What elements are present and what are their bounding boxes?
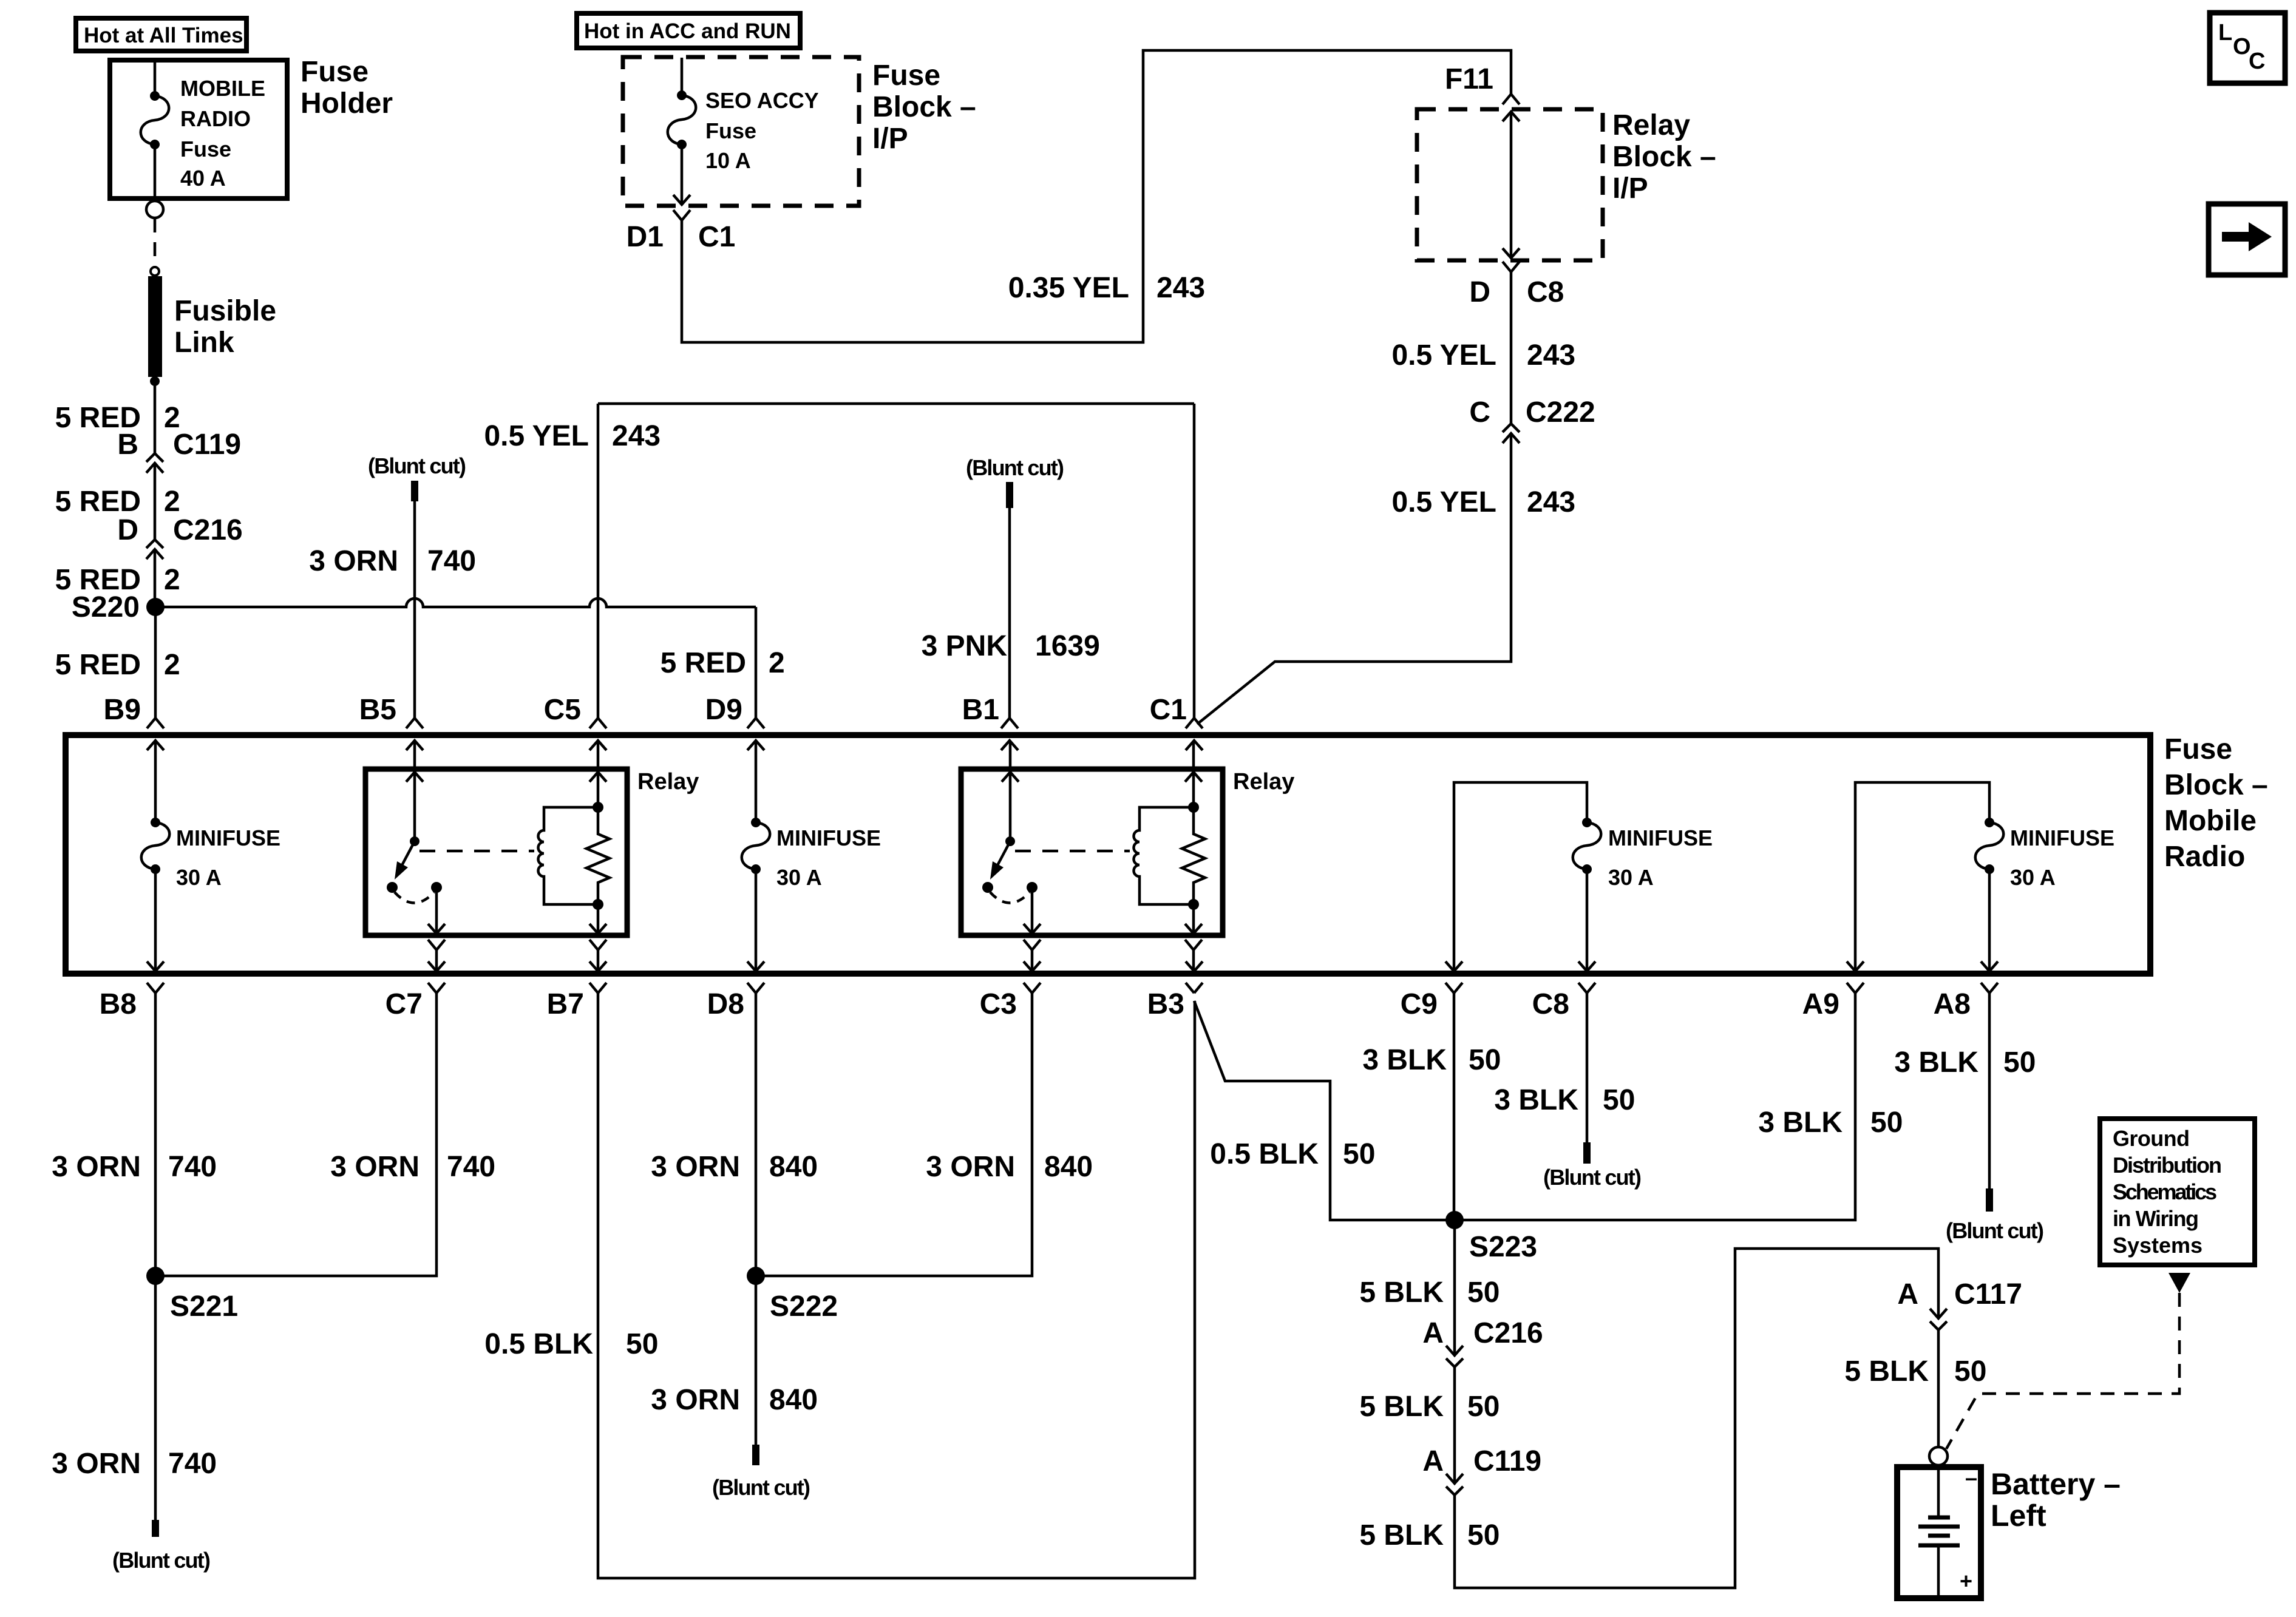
wire 5 RED 2 (C216 to S220) [154, 549, 157, 607]
wire relay 1 to block edge [597, 950, 600, 971]
wire 0.5 YEL 243 (C5/C1 feed) [598, 404, 1194, 718]
wire C9-C8 inside block (inverted U) [1454, 782, 1587, 971]
svg-text:B: B [117, 429, 138, 461]
svg-text:Link: Link [174, 327, 234, 359]
svg-text:50: 50 [1954, 1355, 1986, 1388]
wire 3 ORN 740 (below S221) [154, 1276, 157, 1520]
svg-text:3 BLK: 3 BLK [1362, 1044, 1447, 1076]
wire 5 BLK 50 (C119 to C117) [1455, 1249, 1938, 1588]
svg-text:50: 50 [1603, 1084, 1635, 1116]
svg-text:A: A [1422, 1317, 1444, 1349]
svg-text:A: A [1897, 1278, 1918, 1310]
svg-text:243: 243 [612, 420, 661, 452]
connector fork B7 at block bottom edge [589, 983, 606, 993]
wire relay 2 to block edge [1192, 950, 1195, 971]
svg-text:50: 50 [1467, 1391, 1500, 1423]
blunt cut end (C8 wire) [1583, 1142, 1591, 1164]
svg-text:C8: C8 [1527, 276, 1564, 308]
minifuse 30A (B9/B8) [151, 818, 160, 827]
relay 2 coil bottom junction dot [1188, 899, 1199, 910]
svg-text:RADIO: RADIO [180, 106, 251, 131]
svg-text:5 RED: 5 RED [55, 486, 141, 518]
relay 1 box [365, 769, 627, 935]
blunt cut end (S221 branch) [152, 1520, 159, 1537]
wire 3 BLK 50 (A8) [1988, 993, 1991, 1188]
fork below relay 1 bottom-right pin [589, 940, 606, 950]
svg-text:C3: C3 [980, 988, 1017, 1020]
battery cell plates [1918, 1517, 1960, 1545]
svg-text:50: 50 [1343, 1138, 1375, 1170]
wire 5 BLK 50 (C216 to C119) [1453, 1367, 1456, 1483]
svg-text:F11: F11 [1445, 63, 1493, 95]
svg-text:30 A: 30 A [176, 865, 222, 890]
relay 1 contact dot (NO) [431, 882, 442, 893]
connector C216 (in-line, ground side) [1446, 1346, 1463, 1367]
svg-text:5 RED: 5 RED [661, 647, 746, 679]
arrow relay 2 right pin [1185, 772, 1202, 782]
wire 3 BLK 50 (C8) [1586, 993, 1589, 1142]
svg-text:Block –: Block – [1612, 141, 1716, 173]
arrow relay 1 bottom-right pin [589, 924, 606, 934]
svg-text:0.5 BLK: 0.5 BLK [484, 1328, 593, 1360]
svg-text:L: L [2218, 20, 2232, 46]
arrow at fuse block I/P exit [673, 195, 690, 205]
svg-text:1639: 1639 [1035, 630, 1100, 662]
connector fork D/C8 below relay block [1503, 262, 1520, 272]
arrow B7 inside block bottom edge [589, 961, 606, 971]
svg-text:D1: D1 [627, 221, 664, 253]
svg-text:D9: D9 [705, 694, 742, 726]
svg-text:MINIFUSE: MINIFUSE [176, 825, 280, 850]
relay block I/P dashed box [1417, 109, 1603, 260]
connector C119 (in-line, ground side) [1446, 1474, 1463, 1495]
fork below relay 2 bottom-right pin [1185, 940, 1202, 950]
connector fork C8 at block bottom edge [1578, 983, 1595, 993]
svg-text:MINIFUSE: MINIFUSE [1608, 825, 1713, 850]
relay 1 switch arm [399, 841, 415, 871]
wire 0.5 BLK 50 (B7 loop to B3) [598, 993, 1195, 1578]
wire 5 RED 2 (C119 to C216) [154, 463, 157, 540]
svg-text:S221: S221 [170, 1290, 238, 1323]
relay 2 box [961, 769, 1223, 935]
wire 3 ORN 740 (B8 to S221) [154, 993, 157, 1276]
connector fork C5 at block top edge [589, 718, 606, 728]
svg-text:C9: C9 [1401, 988, 1438, 1020]
arrow C1 inside block top edge [1186, 741, 1203, 750]
svg-text:D8: D8 [707, 988, 744, 1020]
svg-text:3 BLK: 3 BLK [1494, 1084, 1578, 1116]
svg-text:2: 2 [164, 564, 180, 596]
arrow relay 2 left pin [1002, 772, 1019, 782]
arrow D8 inside block bottom edge [747, 961, 764, 971]
svg-text:C1: C1 [698, 221, 735, 253]
wire 3 PNK 1639 (B1) [1008, 508, 1011, 718]
svg-text:B3: B3 [1147, 988, 1184, 1020]
wire inside fuse holder [154, 60, 157, 196]
svg-text:3 BLK: 3 BLK [1894, 1046, 1978, 1079]
relay 2 contact dot (NC) [982, 882, 993, 893]
wire 0.5 YEL 243 (C222 to C1) [1197, 433, 1511, 724]
svg-text:Mobile: Mobile [2164, 805, 2257, 837]
svg-text:Distribution: Distribution [2113, 1153, 2222, 1178]
svg-text:C: C [1469, 396, 1490, 429]
svg-text:+: + [1960, 1568, 1972, 1593]
svg-text:B8: B8 [100, 988, 137, 1020]
arrow C5 inside block top edge [589, 741, 606, 750]
wire 5 RED 2 (D9) [755, 607, 758, 718]
connector fork D1/C1 below fuse block I/P [673, 210, 690, 220]
svg-text:740: 740 [168, 1151, 217, 1183]
connector fork D9 at block top edge [747, 718, 764, 728]
svg-text:B7: B7 [547, 988, 584, 1020]
svg-text:0.5 YEL: 0.5 YEL [1391, 486, 1496, 518]
wire relay 1 coil feed [597, 772, 600, 807]
connector C117 (in-line) [1930, 1309, 1947, 1330]
wire A9-A8 inside block (inverted U) [1855, 782, 1989, 971]
svg-text:3 PNK: 3 PNK [922, 630, 1008, 662]
relay 2 coil [1134, 807, 1194, 904]
small ring top of fusible link [151, 267, 159, 276]
svg-text:Block –: Block – [2164, 769, 2268, 801]
svg-text:50: 50 [1467, 1276, 1500, 1309]
relay 2 resistor [1182, 807, 1205, 904]
svg-text:Fuse: Fuse [180, 137, 231, 161]
svg-text:C222: C222 [1526, 396, 1595, 429]
svg-text:Relay: Relay [637, 769, 699, 795]
blunt cut end (S222 branch) [752, 1445, 759, 1465]
relay 1 contact dot (NC) [387, 882, 398, 893]
svg-text:A: A [1422, 1445, 1444, 1477]
arrow B5 inside block top edge [406, 741, 423, 750]
arrow B1 inside block top edge [1001, 741, 1018, 750]
wire 0.35 YEL 243 (C1 to F11) [682, 50, 1511, 342]
arrow A8 inside block bottom edge [1981, 961, 1998, 971]
wire 3 BLK 50 (C9 to S223) [1453, 993, 1456, 1220]
wire relay 1 coil return [597, 904, 600, 934]
connector fork C1 at block top edge [1186, 718, 1203, 728]
connector fork C3 at block bottom edge [1024, 983, 1041, 993]
ground distribution schematics reference box [2100, 1119, 2255, 1265]
relay 2 coil top junction dot [1188, 802, 1199, 813]
blunt cut end (B1 wire) [1006, 482, 1013, 508]
relay 1 coil bottom junction dot [593, 899, 603, 910]
wire relay 2 to block edge [1031, 950, 1034, 971]
svg-text:(Blunt cut): (Blunt cut) [1543, 1165, 1642, 1190]
connector fork B8 at block bottom edge [147, 983, 164, 993]
svg-text:Relay: Relay [1612, 109, 1690, 141]
svg-text:(Blunt cut): (Blunt cut) [368, 453, 466, 478]
svg-text:B9: B9 [104, 694, 141, 726]
dashed reference line to battery [1946, 1293, 2179, 1449]
svg-text:Block –: Block – [872, 91, 976, 123]
fuse block I/P dashed box [623, 57, 859, 206]
arrow relay 1 left pin [406, 772, 423, 782]
arrow C7 inside block bottom edge [428, 961, 445, 971]
svg-text:C216: C216 [1473, 1317, 1543, 1349]
connector ring below fuse holder [146, 201, 163, 218]
relay 1 switch pivot dot [410, 836, 419, 846]
svg-text:Battery –: Battery – [1991, 1467, 2121, 1501]
connector fork B1 at block top edge [1001, 718, 1018, 728]
connector fork C7 at block bottom edge [428, 983, 445, 993]
svg-text:Fuse: Fuse [872, 59, 940, 92]
svg-text:5 BLK: 5 BLK [1359, 1391, 1444, 1423]
relay 2 switch pivot dot [1005, 836, 1015, 846]
wire relay 1 NO contact down [435, 887, 438, 934]
svg-text:Holder: Holder [301, 87, 393, 120]
wire B9-B8 inside block [154, 741, 157, 971]
label box "Hot at All Times" [76, 18, 246, 51]
svg-text:Fusible: Fusible [174, 295, 276, 327]
svg-text:50: 50 [2003, 1046, 2036, 1079]
connector fork A8 at block bottom edge [1981, 983, 1998, 993]
wire 3 ORN 740 (B5) [413, 501, 416, 718]
svg-text:Relay: Relay [1233, 769, 1294, 795]
minifuse 30A (C8) [1582, 818, 1592, 827]
svg-text:MOBILE: MOBILE [180, 76, 265, 101]
ground ref pointer triangle [2169, 1273, 2190, 1293]
svg-text:D: D [1469, 276, 1490, 308]
wire 5 RED 2 (S220 to B9) [154, 607, 157, 718]
relay 1 resistor [586, 807, 610, 904]
svg-text:840: 840 [769, 1151, 818, 1183]
svg-text:5 BLK: 5 BLK [1359, 1519, 1444, 1551]
svg-text:S223: S223 [1469, 1231, 1537, 1263]
junction S223 [1445, 1211, 1464, 1229]
minifuse 30A (A8) [1985, 818, 1994, 827]
svg-text:30 A: 30 A [1608, 865, 1654, 890]
battery terminal ring [1929, 1447, 1948, 1465]
relay 1 coil top junction dot [593, 802, 603, 813]
wire 3 ORN 840 (below S222) [755, 1276, 758, 1445]
fuse block Mobile Radio outline [66, 735, 2150, 974]
svg-text:Radio: Radio [2164, 841, 2245, 873]
svg-text:D: D [117, 514, 138, 546]
svg-text:C1: C1 [1150, 694, 1187, 726]
wire relay 1 to block edge [435, 950, 438, 971]
svg-text:3 ORN: 3 ORN [651, 1384, 740, 1416]
connector C216 (in-line) [146, 540, 163, 559]
svg-text:A9: A9 [1802, 988, 1839, 1020]
relay 2 dashed contact arc [990, 892, 1030, 903]
svg-text:30 A: 30 A [2010, 865, 2056, 890]
svg-text:50: 50 [1467, 1519, 1500, 1551]
svg-text:(Blunt cut): (Blunt cut) [1946, 1218, 2044, 1243]
label box "Hot in ACC and RUN" [577, 13, 800, 48]
svg-text:3 ORN: 3 ORN [52, 1448, 141, 1480]
connector C119 (in-line) [146, 453, 163, 473]
svg-text:(Blunt cut): (Blunt cut) [966, 455, 1064, 480]
svg-text:MINIFUSE: MINIFUSE [776, 825, 881, 850]
svg-text:Left: Left [1991, 1499, 2046, 1533]
svg-text:2: 2 [164, 649, 180, 681]
svg-text:243: 243 [1156, 272, 1205, 304]
battery Left box [1897, 1467, 1981, 1598]
dashed wire segment [154, 219, 157, 267]
LOC reference box [2210, 13, 2285, 83]
junction S220 [146, 598, 165, 616]
wire 3 ORN 840 (C3 to S222) [756, 993, 1032, 1276]
svg-text:I/P: I/P [872, 123, 908, 155]
svg-text:50: 50 [1870, 1107, 1903, 1139]
wire inside fuse block I/P [681, 58, 684, 205]
connector fork F11 above relay block [1503, 94, 1520, 104]
svg-text:2: 2 [164, 486, 180, 518]
svg-text:0.5 BLK: 0.5 BLK [1210, 1138, 1319, 1170]
svg-text:10 A: 10 A [705, 148, 751, 173]
svg-text:5 BLK: 5 BLK [1844, 1355, 1929, 1388]
svg-text:2: 2 [769, 647, 785, 679]
connector fork B5 at block top edge [406, 718, 423, 728]
connector fork A9 at block bottom edge [1847, 983, 1864, 993]
junction S222 [747, 1267, 765, 1285]
wire 5 BLK 50 (S223 to C216) [1453, 1220, 1456, 1355]
connector fork C9 at block bottom edge [1445, 983, 1462, 993]
svg-text:C7: C7 [385, 988, 423, 1020]
wire relay 2 NO contact down [1031, 887, 1034, 934]
arrow A9 inside block bottom edge [1847, 961, 1864, 971]
wire into relay 2 left pin [1009, 741, 1012, 772]
svg-text:Systems: Systems [2113, 1233, 2203, 1258]
wire into relay 2 right pin [1192, 741, 1195, 772]
svg-text:MINIFUSE: MINIFUSE [2010, 825, 2114, 850]
junction dot below fusible link [150, 376, 160, 386]
svg-text:30 A: 30 A [776, 865, 822, 890]
arrow C3 inside block bottom edge [1024, 961, 1041, 971]
svg-text:Fuse: Fuse [2164, 733, 2232, 765]
wire into relay 1 left pin [413, 741, 416, 772]
svg-text:Hot in ACC and RUN: Hot in ACC and RUN [584, 19, 791, 43]
svg-text:3 ORN: 3 ORN [52, 1151, 141, 1183]
svg-text:C119: C119 [1473, 1445, 1541, 1477]
svg-text:3 ORN: 3 ORN [926, 1151, 1015, 1183]
svg-text:5 RED: 5 RED [55, 649, 141, 681]
wire relay 1 switch feed [413, 772, 416, 841]
connector fork D8 at block bottom edge [747, 983, 764, 993]
connector fork B3 at block bottom edge [1186, 983, 1203, 993]
connector fork B9 at block top edge [147, 718, 164, 728]
svg-text:3 ORN: 3 ORN [651, 1151, 740, 1183]
arrow reference box [2209, 204, 2285, 275]
arrow B9 inside block top edge [147, 741, 164, 750]
arrow D9 inside block top edge [747, 741, 764, 750]
blunt cut end (B5 wire) [411, 481, 418, 501]
svg-text:50: 50 [626, 1328, 658, 1360]
svg-text:Fuse: Fuse [705, 118, 756, 143]
svg-text:C119: C119 [173, 429, 241, 461]
arrow inside relay block top [1503, 112, 1520, 121]
svg-text:3 ORN: 3 ORN [309, 545, 398, 577]
fuse MOBILE RADIO 40 A symbol [150, 91, 160, 101]
svg-text:740: 740 [168, 1448, 217, 1480]
minifuse 30A (D9/D8) [751, 818, 761, 827]
wire 5 BLK 50 (C117 to battery) [1937, 1330, 1940, 1447]
svg-text:40 A: 40 A [180, 166, 226, 191]
fusible link [148, 276, 162, 377]
svg-text:0.35 YEL: 0.35 YEL [1008, 272, 1129, 304]
wire relay 2 coil return [1192, 904, 1195, 934]
arrow C9 inside block bottom edge [1445, 961, 1462, 971]
svg-text:Schematics: Schematics [2113, 1179, 2217, 1204]
svg-text:243: 243 [1527, 339, 1575, 371]
fuse holder box [110, 60, 287, 198]
svg-text:243: 243 [1527, 486, 1575, 518]
arrow B8 inside block bottom edge [147, 961, 164, 971]
relay 2 dashed actuator line [1015, 850, 1130, 853]
wire S220 to D9 (with hops) [155, 598, 756, 607]
wire inside relay block I/P [1510, 112, 1513, 258]
wire relay 2 switch feed [1009, 772, 1012, 841]
svg-text:S220: S220 [72, 591, 140, 623]
arrow relay 1 bottom-left pin [428, 924, 445, 934]
svg-text:5 BLK: 5 BLK [1359, 1276, 1444, 1309]
arrow relay 2 bottom-right pin [1185, 924, 1202, 934]
relay 2 switch arm [994, 841, 1010, 871]
svg-text:A8: A8 [1934, 988, 1971, 1020]
svg-text:C8: C8 [1532, 988, 1569, 1020]
arrow B3 inside block bottom edge [1186, 961, 1203, 971]
wire 0.5 YEL 243 (C8 to C222) [1510, 272, 1513, 424]
connector C222 (in-line) [1503, 424, 1520, 443]
svg-text:Hot at All Times: Hot at All Times [84, 24, 243, 47]
svg-text:840: 840 [1044, 1151, 1093, 1183]
svg-text:0.5 YEL: 0.5 YEL [484, 420, 589, 452]
arrow relay 1 right pin [589, 772, 606, 782]
wire relay 2 coil feed [1192, 772, 1195, 807]
svg-text:B1: B1 [962, 694, 999, 726]
svg-text:C5: C5 [544, 694, 581, 726]
svg-text:840: 840 [769, 1384, 818, 1416]
wire 0.5 BLK 50 (B3 to S223) [1194, 1001, 1455, 1220]
svg-text:Fuse: Fuse [301, 56, 369, 88]
svg-text:0.5 YEL: 0.5 YEL [1391, 339, 1496, 371]
fork below relay 2 bottom-left pin [1024, 940, 1041, 950]
svg-text:C: C [2249, 49, 2265, 74]
svg-text:C117: C117 [1954, 1278, 2022, 1310]
svg-text:3 BLK: 3 BLK [1758, 1107, 1843, 1139]
wire 5 RED 2 (link to C119) [154, 381, 157, 453]
svg-text:740: 740 [447, 1151, 495, 1183]
relay 1 dashed contact arc [395, 892, 434, 903]
svg-text:–: – [1965, 1465, 1977, 1490]
svg-text:Ground: Ground [2113, 1126, 2190, 1151]
wire D9-D8 inside block [755, 741, 758, 971]
wire inside battery [1937, 1465, 1940, 1595]
wire 3 ORN 840 (D8 to S222) [755, 993, 758, 1276]
svg-text:SEO ACCY: SEO ACCY [705, 88, 819, 113]
junction S221 [146, 1267, 165, 1285]
wire 3 ORN 740 (C7 to S221) [155, 993, 436, 1276]
svg-text:3 ORN: 3 ORN [330, 1151, 419, 1183]
svg-text:I/P: I/P [1612, 172, 1648, 205]
svg-text:740: 740 [427, 545, 476, 577]
relay 1 coil [538, 807, 599, 904]
svg-text:(Blunt cut): (Blunt cut) [712, 1475, 810, 1500]
svg-text:(Blunt cut): (Blunt cut) [112, 1548, 211, 1573]
relay 1 dashed actuator line [419, 850, 534, 853]
fork below relay 1 bottom-left pin [428, 940, 445, 950]
blunt cut end (A8 wire) [1986, 1188, 1993, 1212]
svg-text:C216: C216 [173, 514, 243, 546]
svg-text:50: 50 [1469, 1044, 1501, 1076]
svg-text:S222: S222 [770, 1290, 838, 1323]
svg-text:in Wiring: in Wiring [2113, 1206, 2199, 1231]
wire 3 BLK 50 (A9 to S223) [1455, 993, 1855, 1220]
arrow inside relay block bottom [1503, 248, 1520, 258]
arrow relay 2 bottom-left pin [1024, 924, 1041, 934]
arrow C8 inside block bottom edge [1578, 961, 1595, 971]
fuse SEO ACCY 10 A symbol [677, 90, 687, 100]
